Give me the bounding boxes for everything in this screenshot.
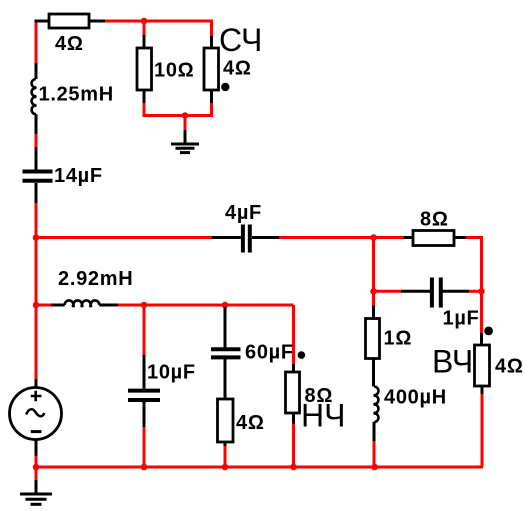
wire top net <box>105 20 213 23</box>
wire mid net corner down red <box>292 305 295 364</box>
inductor L2 2.92mH <box>51 300 118 307</box>
wire midloop bottom <box>144 114 212 117</box>
voltage source V1 <box>10 388 62 440</box>
resistor R5 1ohm <box>366 306 380 387</box>
node bus 10uF <box>141 464 148 471</box>
svg-text:2.92mH: 2.92mH <box>58 268 133 290</box>
resistor R1 4ohm <box>49 14 89 28</box>
capacitor C2 4uF <box>212 225 279 253</box>
wire second net right red <box>469 290 482 293</box>
wire R3 top lead <box>210 36 213 48</box>
inductor L3 400uH <box>373 387 378 442</box>
node mid net 10uF <box>141 302 148 309</box>
svg-text:4Ω: 4Ω <box>55 33 84 55</box>
svg-text:8Ω: 8Ω <box>420 209 449 231</box>
wire bottom bus red <box>36 466 375 469</box>
wire 10ohm bottom stem red <box>143 103 146 117</box>
ground G1 <box>171 130 199 153</box>
svg-text:1Ω: 1Ω <box>384 328 413 350</box>
wire mid net red <box>118 304 294 307</box>
wire tweeter bottom red <box>481 394 484 467</box>
svg-text:400µH: 400µH <box>384 387 447 409</box>
node ground junction <box>182 112 189 119</box>
svg-text:СЧ: СЧ <box>219 22 262 58</box>
node bus right junction <box>370 234 377 241</box>
wire top-right red <box>466 236 482 239</box>
node bus source <box>33 464 40 471</box>
wire R7 bottom stem red <box>224 446 227 467</box>
node mid net 60uF <box>222 302 229 309</box>
svg-text:10Ω: 10Ω <box>154 60 194 82</box>
terminal dot midrange <box>221 83 229 91</box>
wire woofer bottom stem red <box>292 424 295 467</box>
capacitor C1 14uF <box>23 147 53 203</box>
svg-text:4Ω: 4Ω <box>236 412 265 434</box>
svg-text:4µF: 4µF <box>225 202 262 224</box>
wire R3 bottom lead <box>210 90 213 103</box>
wire 10ohm top lead <box>143 35 146 48</box>
resistor R3 4ohm midrange speaker <box>204 48 219 90</box>
svg-text:НЧ: НЧ <box>301 398 345 434</box>
wire 10ohm bottom lead <box>143 90 146 103</box>
wire tweeter top red <box>480 291 483 333</box>
wire 10uF top stem red <box>143 306 146 355</box>
svg-text:1µF: 1µF <box>443 308 480 330</box>
wire right vertical red <box>480 236 483 292</box>
inductor L1 1.25mH <box>32 63 37 134</box>
node top junction <box>141 18 148 25</box>
resistor R8 8ohm woofer <box>286 372 300 424</box>
wire source bottom stem red <box>35 456 38 480</box>
wire source bottom lead <box>35 440 38 457</box>
wire mid vertical red <box>372 238 375 293</box>
wire top-right corner down <box>210 21 213 36</box>
wire woofer top lead <box>292 364 295 372</box>
wire main bus right red <box>279 236 404 239</box>
svg-text:4Ω: 4Ω <box>223 58 252 80</box>
resistor R7 4ohm <box>218 399 234 446</box>
capacitor C5 60uF <box>211 307 241 399</box>
terminal dot woofer <box>298 351 306 359</box>
wire 10ohm top stem red <box>143 21 146 35</box>
wire ground stem red <box>184 116 187 131</box>
node mid wire left <box>33 302 40 309</box>
node second wire right <box>478 288 485 295</box>
wire bottom bus right red <box>375 466 483 469</box>
wire mid net left red <box>36 304 51 307</box>
wire R5 branch bottom red <box>373 441 376 467</box>
wire R3 bottom stem red <box>210 103 213 117</box>
wire R1 right lead <box>89 20 105 23</box>
svg-text:14µF: 14µF <box>54 165 103 187</box>
node bus 60uF <box>222 464 229 471</box>
wire left vertical long red <box>35 203 38 379</box>
wire left vertical upper red <box>35 23 38 64</box>
wire left vertical mid red <box>35 134 38 147</box>
node bus 400uH <box>371 464 378 471</box>
svg-text:ВЧ: ВЧ <box>432 344 473 380</box>
svg-text:60µF: 60µF <box>245 342 294 364</box>
capacitor C3 1uF <box>401 278 469 308</box>
node main bus left <box>33 234 40 241</box>
terminal dot tweeter <box>484 327 493 336</box>
resistor R2 10ohm <box>137 48 152 90</box>
node second wire left <box>370 288 377 295</box>
svg-text:10µF: 10µF <box>147 362 196 384</box>
svg-text:1.25mH: 1.25mH <box>39 84 114 106</box>
wire top-left corner <box>35 20 50 23</box>
node bus woofer <box>290 464 297 471</box>
wire 10uF bottom stem red <box>143 427 146 467</box>
resistor R6 4ohm tweeter <box>475 333 490 394</box>
wire main bus left red <box>36 236 212 239</box>
ground G2 <box>20 480 52 504</box>
capacitor C4 10uF <box>128 355 160 427</box>
wire second net red <box>374 290 402 293</box>
wire source top lead <box>35 379 38 388</box>
wire R5 top stem red <box>372 292 375 306</box>
svg-text:4Ω: 4Ω <box>495 356 524 378</box>
resistor R4 8ohm <box>404 231 466 246</box>
